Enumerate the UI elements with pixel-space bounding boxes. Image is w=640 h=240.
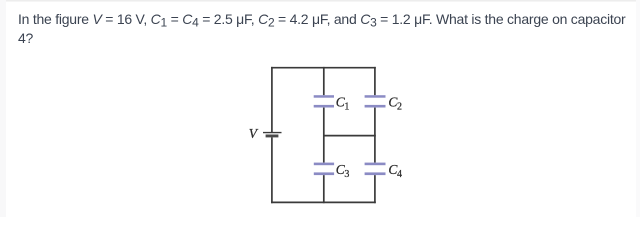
svg-text:C4: C4 [388, 162, 402, 180]
battery V short thick plate [266, 135, 279, 138]
wire middle branch upper [323, 67, 325, 95]
capacitor C2 plates [365, 95, 386, 107]
battery V long plate [263, 132, 282, 134]
wire right branch center [374, 108, 376, 163]
wire left above battery [271, 67, 273, 132]
svg-text:C2: C2 [388, 94, 402, 112]
wire bottom [271, 201, 376, 203]
wire right branch lower [374, 175, 376, 203]
capacitor C4 plates [365, 163, 386, 175]
wire left below battery [271, 137, 273, 203]
svg-text:V: V [249, 126, 259, 141]
wire middle horizontal [323, 135, 376, 137]
wire middle branch lower [323, 175, 325, 203]
capacitor C3 plates [314, 163, 334, 175]
svg-text:C3: C3 [336, 162, 350, 180]
wire right branch upper [374, 67, 376, 95]
svg-text:C1: C1 [336, 94, 350, 112]
wire top [271, 67, 376, 69]
wire middle branch center [323, 108, 325, 163]
question text [18, 10, 625, 48]
capacitor C1 plates [314, 95, 334, 107]
